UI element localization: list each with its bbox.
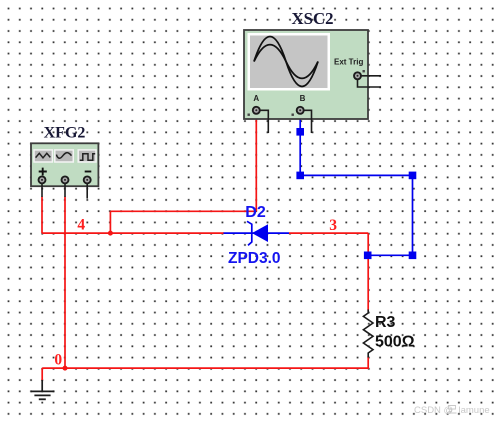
XFG2 triangle wave icon (36, 153, 51, 158)
svg-text:lamune: lamune (459, 405, 490, 416)
label XSC2 (292, 9, 334, 28)
wire: riser from junction 4 (109, 211, 111, 233)
svg-text:A: A (253, 94, 259, 103)
channel B terminal stub (304, 110, 312, 133)
node 4 junction dot (108, 231, 113, 236)
wire: horizontal from A drop to node 4 riser (110, 210, 256, 212)
scope screen trace A (large sine) (254, 37, 318, 87)
wire: resistor bottom to bottom rail (42, 357, 368, 369)
XFG2 square wave icon (80, 154, 95, 161)
channel A terminal stub (260, 110, 269, 133)
wire: node 3 vertical drop to resistor (367, 233, 369, 310)
wire: bottom rail corner down to ground (41, 368, 43, 381)
scope screen trace B (small sine) (254, 45, 318, 79)
watermark CSDN (414, 405, 490, 416)
XFG2 plus terminal stub (41, 184, 43, 198)
label ZPD3.0 (228, 250, 281, 267)
wire: scope channel B blue measurement wire (300, 113, 412, 255)
blue wire handle 2 (296, 172, 304, 180)
wire: XFG2 plus terminal drop (41, 197, 43, 234)
svg-text:XFG2: XFG2 (44, 125, 86, 142)
svg-text:3: 3 (329, 217, 337, 234)
channel B terminal (292, 107, 304, 116)
wire: scope channel A vertical drop (255, 113, 257, 211)
label B (300, 94, 306, 103)
zener diode D2 triangle (252, 224, 268, 242)
svg-text:ZPD3.0: ZPD3.0 (228, 250, 281, 267)
svg-text:Ext Trig: Ext Trig (334, 58, 363, 67)
wire: diode cathode to node 3 corner (289, 232, 368, 234)
svg-text:4: 4 (77, 216, 85, 233)
node 0 junction dot (63, 366, 68, 371)
ground symbol (31, 380, 55, 399)
blue wire handle 4 (409, 252, 417, 260)
label Ext Trig (334, 58, 363, 67)
XFG2 common terminal stub (64, 184, 66, 198)
svg-text:XSC2: XSC2 (292, 9, 334, 28)
channel A terminal (248, 107, 260, 116)
ext trig terminal (354, 70, 365, 79)
label R3 (375, 314, 396, 331)
XFG2 plus terminal (39, 176, 46, 183)
label D2 (245, 204, 266, 221)
zener diode D2 cathode bar with zener ticks (247, 221, 252, 245)
XFG2 minus mark (85, 171, 92, 173)
blue wire handle 3 (409, 172, 417, 180)
svg-text:500Ω: 500Ω (375, 334, 415, 351)
function generator U: XFG2 body (31, 143, 98, 186)
wire: node 4 horizontal to diode anode (42, 232, 224, 234)
oscilloscope U: XSC2 body (244, 30, 368, 119)
XFG2 minus terminal stub (open) (86, 184, 88, 199)
XFG2 minus terminal (84, 176, 91, 183)
blue wire handle 5 (364, 252, 372, 260)
svg-text:B: B (300, 94, 306, 103)
node label 4 (77, 216, 85, 233)
resistor R3 zigzag (363, 310, 373, 358)
svg-text:CSDN @: CSDN @ (414, 405, 453, 416)
svg-text:D2: D2 (245, 204, 266, 221)
svg-text:R3: R3 (375, 314, 396, 331)
blue wire handle 1 (296, 128, 304, 136)
ext trig terminal stub (358, 76, 382, 87)
node label 3 (329, 217, 337, 234)
zener diode D2 leads (224, 232, 290, 234)
label R3 value 500ohm (375, 334, 415, 351)
label XFG2 (44, 125, 86, 142)
XFG2 sine wave icon (56, 153, 71, 159)
node label 0 (54, 351, 62, 368)
XFG2 common terminal (62, 176, 69, 183)
svg-text:0: 0 (54, 351, 62, 368)
label A (253, 94, 259, 103)
XFG2 plus mark (39, 168, 47, 176)
wire: XFG2 common terminal long drop to node 0 (64, 197, 66, 369)
